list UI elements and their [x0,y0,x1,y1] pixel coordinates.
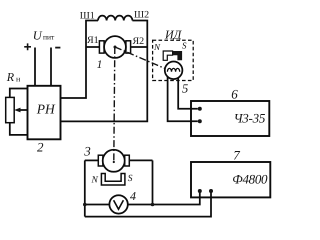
svg-text:Ф4800: Ф4800 [232,171,268,186]
svg-text:пит: пит [43,33,55,42]
svg-text:7: 7 [233,148,240,163]
svg-text:Ш1: Ш1 [80,10,95,21]
svg-text:1: 1 [97,59,103,71]
svg-text:R: R [6,70,15,84]
svg-text:6: 6 [231,87,238,102]
svg-text:U: U [33,29,43,43]
svg-text:Ш2: Ш2 [134,9,149,20]
svg-text:н: н [16,75,21,84]
svg-text:4: 4 [130,189,136,203]
svg-text:Я2: Я2 [133,36,145,47]
svg-text:Я1: Я1 [87,35,99,46]
svg-text:S: S [182,41,187,51]
svg-text:S: S [128,174,133,184]
svg-text:3: 3 [83,143,91,158]
svg-text:5: 5 [182,81,188,95]
svg-text:2: 2 [37,139,44,154]
svg-text:N: N [153,42,161,52]
svg-text:Ч3-35: Ч3-35 [234,110,266,125]
svg-text:N: N [91,176,99,186]
svg-text:ИД: ИД [164,27,183,41]
svg-text:РН: РН [36,102,56,117]
